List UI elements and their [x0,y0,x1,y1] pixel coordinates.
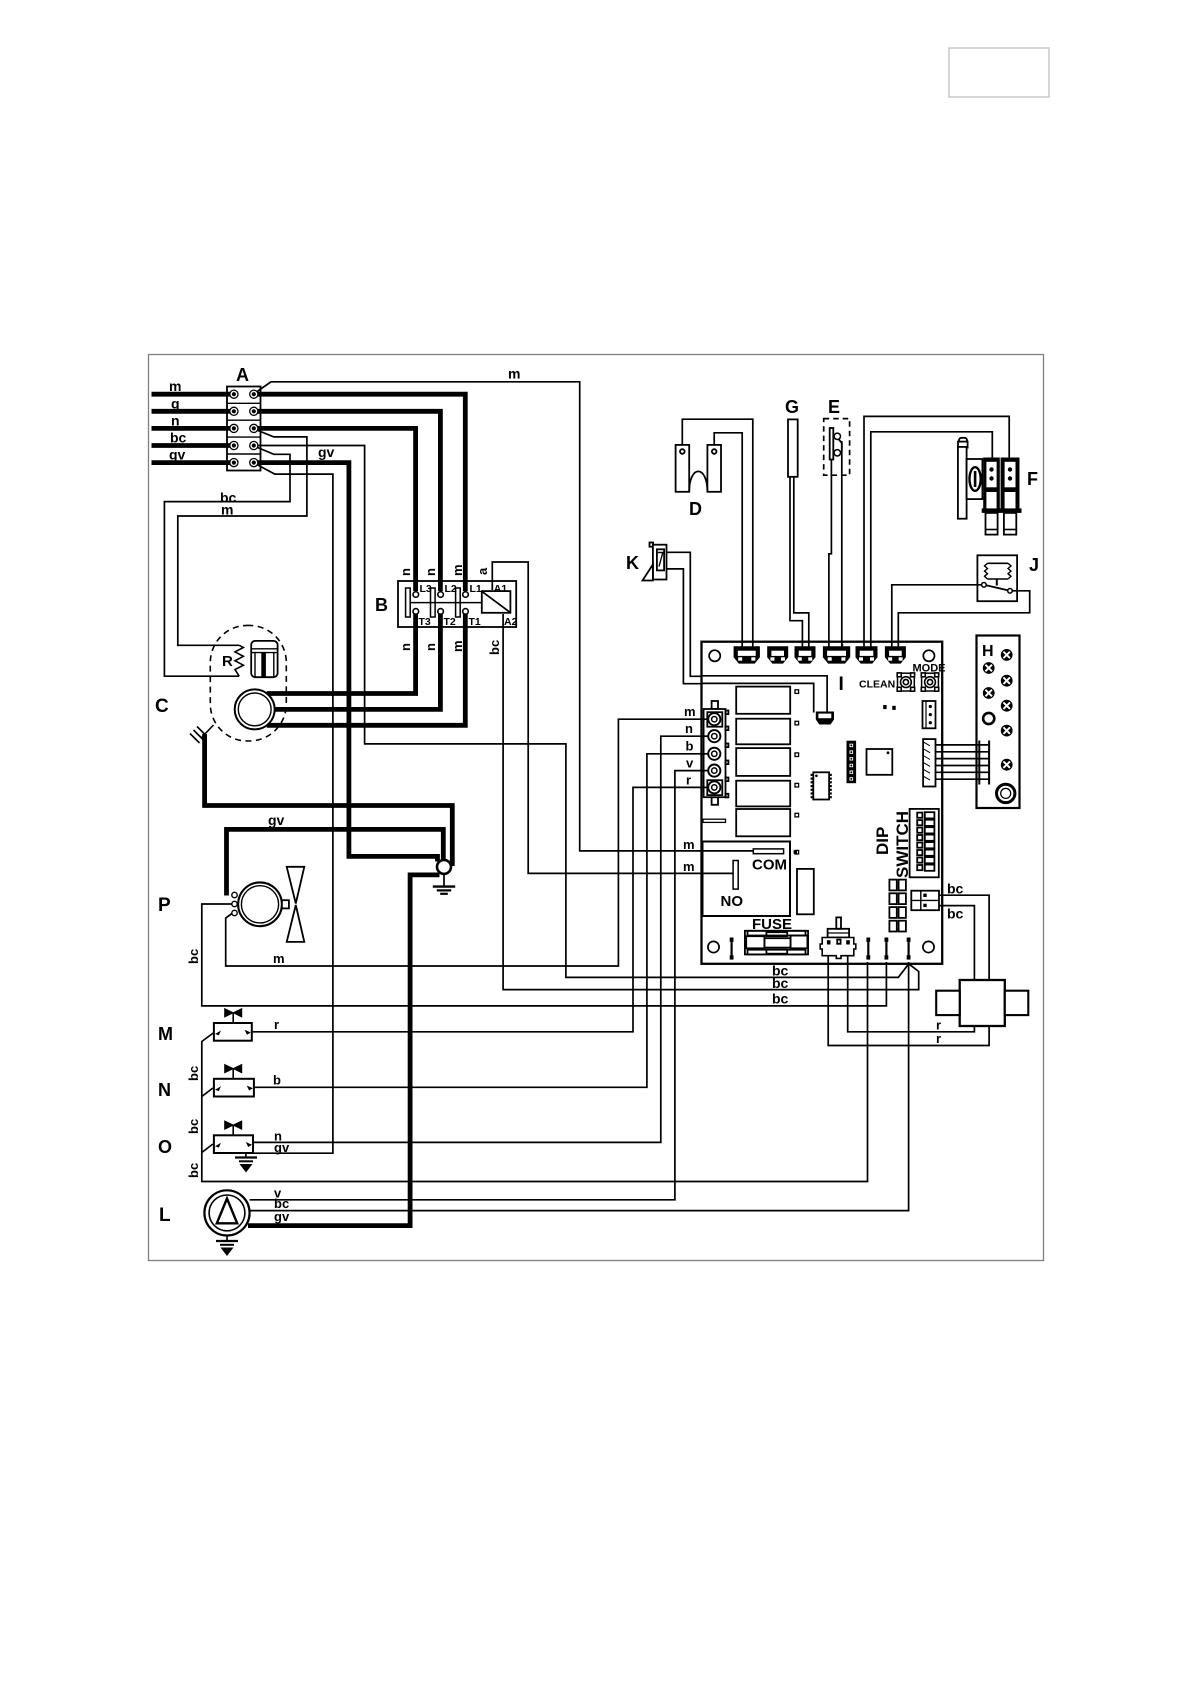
board bottom pin bars [730,938,734,960]
ribbon connector on board [923,739,935,786]
svg-text:C: C [155,696,169,717]
svg-text:gv: gv [274,1209,290,1224]
board connector c6 [885,646,906,663]
wire board to J switch contact [898,591,1029,649]
DIP IC [811,772,832,799]
wire board to igniter F right [864,416,1009,649]
valve N [214,1065,254,1097]
svg-text:b: b [686,739,694,754]
svg-text:NO: NO [721,893,744,910]
pin wire stubs into connector [700,719,709,787]
wire m fan P to board pin m [226,719,709,966]
wire m B T1 to motor C [267,614,466,725]
valve M [214,1009,252,1041]
fan motor P body [238,882,282,926]
wire bc pump L to board pin [250,962,909,1211]
svg-text:bc: bc [947,881,964,897]
svg-text:m: m [450,564,465,576]
wire r valve M to board pin r [252,787,709,1031]
wire gv branch to valve O [253,464,333,1153]
resistor R zigzag [235,645,243,676]
relay bank rectangles [736,687,790,714]
svg-text:K: K [626,553,639,573]
board connector c5 [856,646,878,663]
wire board to J switch common [892,585,982,649]
connector block H body [977,636,1020,809]
ground under valve O [235,1153,257,1173]
svg-text:bc: bc [772,991,789,1007]
wire a from B coil A1 [492,562,733,873]
flame sensor E dashed box [824,419,850,476]
wire bc into terminal A left [152,443,235,448]
svg-text:r: r [274,1017,279,1032]
board connector c4 [823,646,850,663]
svg-text:n: n [398,568,413,576]
contactor B pole pins [413,592,468,615]
svg-text:m: m [273,951,285,966]
svg-text:bc: bc [947,906,964,922]
contactor B coil box [482,591,511,613]
svg-text:G: G [785,397,799,417]
svg-text:m: m [684,704,696,719]
ground under pump L [216,1236,238,1257]
jumper bar [703,819,726,822]
svg-text:bc: bc [170,430,187,446]
wire n A to B L3 [254,428,416,591]
chassis ground hatch at C [190,725,214,743]
svg-text:gv: gv [268,812,285,828]
terminal block A body [227,387,261,471]
wire electrode G lead 1 [790,476,802,649]
earth ground symbol [433,874,455,894]
wire r button leg to flow sensor [848,944,975,1032]
svg-text:B: B [375,595,388,615]
electrode E body [830,428,842,460]
fan P propeller [282,900,289,908]
5 pin connector on board left [704,701,729,805]
svg-text:m: m [683,859,695,874]
sensor D bracket [676,445,721,492]
svg-text:m: m [508,366,520,382]
svg-text:H: H [982,643,994,660]
wire n B T3 to motor C [267,614,416,694]
svg-text:m: m [169,378,181,394]
svg-text:n: n [171,413,180,429]
board mounting holes [709,650,720,661]
wire m into COM redraw [702,850,753,852]
svg-text:P: P [158,895,171,916]
wire bc board terminal to flow sensor [927,895,990,981]
svg-text:O: O [158,1137,172,1157]
wire gv thick A to ground junction [254,463,438,862]
svg-text:M: M [158,1024,173,1044]
board connector c1 [734,646,760,663]
contactor B body [398,581,516,627]
wire chassis C to ground junction [205,734,453,866]
wire b valve N to board pin b [253,754,709,1088]
motor C rotor circles [235,689,275,729]
6 pin header [847,742,855,783]
svg-text:a: a [475,567,490,575]
wire r button leg 2 to flow sensor [828,944,989,1046]
micro switch on board bottom [820,917,856,958]
button CLEAN [897,673,914,691]
svg-text:bc: bc [772,975,789,991]
svg-text:b: b [273,1073,281,1088]
H large hole [997,784,1015,802]
wire m into terminal A left [152,392,235,397]
svg-text:gv: gv [169,447,186,463]
svg-text:g: g [171,396,180,412]
ribbon end bars [978,741,980,785]
wire bc fan P to board pin [202,904,887,1006]
svg-text:N: N [158,1080,171,1100]
wire electrode E lead right [842,441,843,649]
svg-text:m: m [450,640,465,652]
svg-text:MODE: MODE [913,663,946,675]
contactor B contact bars [406,588,411,617]
svg-text:COM: COM [752,857,787,874]
wire sensor D right to board connector [714,433,742,649]
pump L body [204,1190,249,1235]
switch K body [643,543,667,581]
NO contact bar [733,861,738,890]
wire switch K upper to board [667,552,702,676]
wire n into terminal A left [152,426,235,431]
ground junction node [437,860,451,874]
wire n valve O to board pin n [252,736,709,1142]
wire board to igniter F left [871,432,993,649]
capacitor of motor C [251,641,277,677]
svg-text:F: F [1027,469,1038,489]
svg-text:bc: bc [487,640,502,655]
test pads [883,705,886,709]
solder pads right of relays [795,690,799,694]
igniter F electrode connectors [982,458,1022,535]
svg-text:T1: T1 [469,616,481,628]
air pressure switch J body [977,555,1017,601]
svg-text:J: J [1029,555,1039,575]
svg-text:I: I [839,674,844,695]
svg-text:n: n [423,568,438,576]
wire bc from A to board pin [254,446,908,978]
wire gv pump L to ground junction [248,875,440,1226]
svg-text:T3: T3 [419,616,431,628]
igniter F bracket [958,438,982,519]
fan P terminals [232,892,237,897]
wire n B T2 to motor C [274,614,440,709]
diagram border frame [149,355,1044,1261]
wire gv into terminal A left [152,460,235,465]
svg-text:r: r [686,773,691,788]
board connector c3 [795,646,816,663]
main relay box COM NO [703,842,791,917]
wire m A to B L1 [254,394,465,591]
J heater coil [982,563,1013,593]
svg-text:A2: A2 [504,616,518,628]
board connector c2 [767,646,788,663]
svg-text:n: n [398,643,413,651]
svg-text:bc: bc [186,1066,201,1081]
wire v pump L to board pin v [250,771,709,1200]
svg-text:n: n [423,643,438,651]
flow sensor body [936,980,1028,1026]
wire g A to B L2 [254,411,441,591]
wire electrode E lead left [829,460,832,650]
svg-text:CLEAN: CLEAN [859,679,895,691]
svg-text:R: R [222,653,233,670]
control board PCB body [702,642,943,964]
svg-text:n: n [685,721,693,736]
wire bc branch to motor C [164,447,290,677]
empty gray box top-right [949,48,1049,97]
contactor B crossbar [410,602,482,604]
svg-text:L1: L1 [470,583,482,595]
COM contact bar [753,849,783,854]
3 pin connector top right [923,701,936,728]
svg-text:bc: bc [186,949,201,964]
svg-text:L3: L3 [420,583,432,595]
svg-text:gv: gv [318,444,335,460]
2 pin terminal bc [911,891,939,911]
inner wires from K entry to connector [702,676,828,713]
electrode G body [788,419,798,476]
wire gv fan P to ground junction [227,829,444,895]
wire bc board terminal 2 to flow sensor [927,906,975,981]
svg-text:L2: L2 [445,583,457,595]
wire sensor D left to board connector [682,419,753,649]
wire switch K lower to board [667,569,702,684]
ribbon cable wires [936,745,990,779]
svg-text:bc: bc [186,1163,201,1178]
wire bc from B coil A2 [503,614,919,990]
wire bc valve chain M N O to board [202,962,868,1182]
H crossed terminals [1001,650,1012,661]
svg-text:E: E [828,397,840,417]
wire m branch to resistor R [178,430,307,646]
motor C dashed housing [210,625,286,741]
QFP IC [867,749,893,775]
svg-text:L: L [159,1205,171,1226]
fuse holder [745,931,808,955]
svg-text:DIP: DIP [873,827,892,855]
svg-text:m: m [683,837,695,852]
column of small pads below dip [889,880,896,891]
capacitor component [797,869,814,914]
svg-text:A1: A1 [494,583,508,595]
svg-text:SWITCH: SWITCH [893,811,912,878]
svg-text:gv: gv [274,1140,290,1155]
svg-text:A: A [236,365,249,385]
button MODE [921,673,938,691]
DIP switch block [910,809,939,877]
svg-text:T2: T2 [444,616,456,628]
terminal pins of block A [230,390,258,467]
H open terminal [983,713,994,724]
small board connector for K [816,712,834,725]
svg-text:m: m [221,502,233,518]
valve O [214,1121,253,1153]
wire g into terminal A left [152,409,235,414]
wire m from A to board relay COM [255,382,753,851]
svg-text:v: v [686,756,694,771]
wire electrode G lead 2 [794,476,809,649]
svg-text:D: D [689,499,702,519]
svg-text:r: r [936,1031,941,1046]
svg-text:bc: bc [186,1119,201,1134]
